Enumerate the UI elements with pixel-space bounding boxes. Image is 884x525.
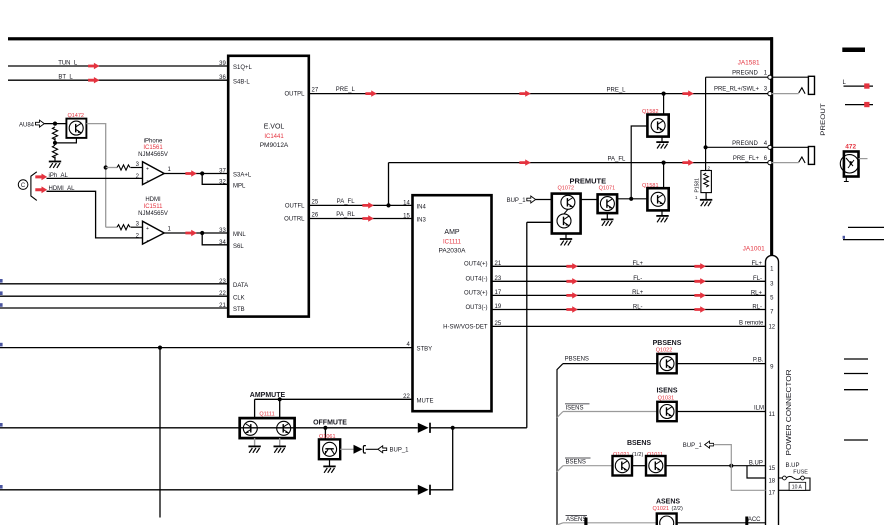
- svg-text:39: 39: [219, 61, 226, 67]
- svg-text:S6L: S6L: [233, 244, 244, 250]
- wire lower mute line: [0, 489, 418, 491]
- svg-text:RL+: RL+: [632, 290, 644, 296]
- wire PREGND pin4: [706, 141, 768, 148]
- svg-text:C: C: [21, 183, 26, 189]
- wire B.UP jumper pins 15/18: [747, 461, 766, 479]
- svg-text:P.B.: P.B.: [753, 357, 764, 363]
- svg-text:ISENS: ISENS: [656, 388, 677, 395]
- wire iPhone output to S3A+L/MPL: [164, 170, 228, 184]
- diode D-Q1061: [354, 445, 366, 454]
- transistor Q1021(2/2) ASENS: [653, 498, 683, 525]
- svg-text:FL+: FL+: [751, 261, 762, 267]
- pin 26 OUTRL: [284, 213, 319, 223]
- ground Q1581: [656, 210, 668, 222]
- pin 25 H-SW/VOS-DET: [443, 321, 502, 331]
- svg-text:15: 15: [403, 213, 410, 219]
- svg-text:33: 33: [219, 228, 226, 234]
- wire DATA: [0, 283, 228, 285]
- svg-text:TUN_L: TUN_L: [58, 61, 78, 67]
- transistor Q1011: [646, 452, 666, 476]
- svg-text:H-SW/VOS-DET: H-SW/VOS-DET: [443, 325, 488, 331]
- pin 23 OUT4(-): [466, 276, 502, 283]
- svg-text:FL-: FL-: [633, 276, 642, 282]
- svg-text:OUTFL: OUTFL: [285, 204, 305, 210]
- svg-text:PA_RL: PA_RL: [336, 212, 355, 218]
- wire Q1072 to Q1071: [581, 199, 598, 201]
- svg-text:ILM: ILM: [754, 406, 764, 412]
- pin 32 MPL: [219, 179, 246, 189]
- svg-text:OUTRL: OUTRL: [284, 217, 305, 223]
- node STBY branch: [158, 346, 162, 350]
- node OFFMUTE branch: [323, 426, 327, 430]
- label PRE_RL+/SWL+ pin3: [714, 87, 768, 93]
- svg-text:+: +: [146, 226, 149, 232]
- wire junction up to Q1582 base: [631, 126, 647, 199]
- svg-text:37: 37: [219, 169, 226, 175]
- pin numbers JA1001: [768, 267, 775, 497]
- pin 27 OUTPL: [284, 88, 318, 98]
- transistor Q1582: [642, 109, 669, 137]
- jack tip lower: [772, 157, 805, 163]
- svg-text:PRE_FL+: PRE_FL+: [733, 156, 760, 162]
- svg-text:Q1071: Q1071: [599, 186, 616, 192]
- svg-text:IN4: IN4: [417, 204, 427, 210]
- wire PRE_L to JA1581 pin 3: [309, 87, 768, 97]
- node base junction: [629, 197, 633, 201]
- resistor divider lower: [52, 145, 57, 158]
- wire B remote: [492, 321, 766, 327]
- thick bar fragment top right edge: [842, 48, 865, 53]
- svg-text:STBY: STBY: [417, 347, 433, 353]
- svg-text:PREGND: PREGND: [732, 71, 758, 77]
- svg-text:HDMI: HDMI: [145, 197, 161, 203]
- svg-text:S3A+L: S3A+L: [233, 173, 252, 179]
- wire divider to Q1472 emitter: [55, 138, 76, 143]
- IC U-E.VOL IC1441 block: [228, 56, 309, 317]
- wire PA_FL riser: [388, 163, 390, 206]
- thick fragment bottom right: [745, 517, 748, 525]
- pin 21 STB: [219, 303, 245, 313]
- fuse FUSE 10A: [779, 463, 811, 491]
- pin 34 S6L: [219, 240, 244, 250]
- svg-text:34: 34: [219, 240, 226, 246]
- thick top bus bar: [8, 37, 773, 40]
- svg-text:17: 17: [768, 491, 775, 497]
- svg-text:IC1511: IC1511: [144, 204, 164, 210]
- op-amp IC1511 HDMI: [106, 197, 172, 244]
- svg-text:PREGND: PREGND: [732, 141, 758, 147]
- svg-text:E.VOL: E.VOL: [264, 124, 285, 131]
- wire Q1472 collector to opamp bias rail (gray): [86, 124, 105, 228]
- resistor divider upper: [52, 127, 57, 140]
- connector JA1001 body POWER CONNECTOR: [766, 255, 793, 525]
- svg-text:B remote: B remote: [739, 321, 764, 327]
- svg-text:-: -: [147, 178, 149, 184]
- svg-text:PBSENS: PBSENS: [653, 340, 682, 347]
- wire drop to Q1061: [324, 428, 326, 440]
- svg-text:FL+: FL+: [632, 261, 643, 267]
- wire stubs right edge lower: [844, 359, 868, 440]
- svg-text:DATA: DATA: [233, 283, 248, 289]
- node PA_FL riser junction: [386, 203, 390, 207]
- svg-text:RL-: RL-: [752, 304, 762, 310]
- svg-text:PRE_RL+/SWL+: PRE_RL+/SWL+: [714, 87, 760, 93]
- wire RL+: [492, 290, 766, 298]
- copyright mark: [18, 180, 28, 190]
- pin 19 OUT3(-): [466, 304, 502, 311]
- pin 14 IN4: [403, 200, 426, 210]
- svg-text:RL+: RL+: [751, 290, 763, 296]
- svg-text:BUP_1: BUP_1: [683, 443, 703, 449]
- svg-text:22: 22: [219, 291, 226, 297]
- wire PREGND vertical link: [705, 77, 707, 170]
- svg-text:IC1111: IC1111: [443, 239, 462, 245]
- svg-text:B.UP: B.UP: [786, 463, 800, 469]
- connector BUP_1 (bsens): [683, 441, 766, 490]
- diode D-offmute: [418, 423, 430, 433]
- wire CLK: [0, 295, 228, 297]
- transistor Q1111 dual mute: [240, 412, 295, 439]
- pin 22 CLK: [219, 291, 245, 301]
- svg-text:JA1001: JA1001: [743, 246, 765, 253]
- svg-text:Q1111: Q1111: [259, 412, 274, 418]
- svg-text:OUT4(-): OUT4(-): [466, 277, 488, 283]
- pin 4 STBY: [406, 342, 432, 353]
- svg-text:14: 14: [403, 200, 410, 206]
- thick fragment bottom center: [584, 518, 587, 525]
- wire stubs right edge y236/240: [843, 227, 884, 239]
- pin 22 MUTE: [403, 394, 433, 405]
- wire stub 2 (right edge): [845, 102, 873, 107]
- svg-text:BSENS: BSENS: [566, 460, 586, 466]
- svg-text:ASENS: ASENS: [566, 517, 586, 523]
- pin 21 OUT4(+): [464, 261, 502, 268]
- pin 33 MNL: [219, 228, 246, 238]
- svg-text:RL-: RL-: [633, 304, 643, 310]
- wire HDMI output to MNL/S6L: [164, 230, 228, 245]
- ground Q1061: [323, 459, 335, 473]
- svg-text:MPL: MPL: [233, 184, 246, 190]
- wire Q1581 collector to PA_FL: [663, 163, 665, 189]
- svg-text:472: 472: [845, 144, 856, 151]
- wire FL-: [492, 276, 766, 284]
- svg-text:OFFMUTE: OFFMUTE: [313, 420, 347, 427]
- transistor Q1071: [598, 186, 618, 213]
- node junction AU84/R divider: [53, 122, 57, 126]
- svg-text:ASENS: ASENS: [656, 498, 680, 505]
- svg-text:BSENS: BSENS: [627, 440, 651, 447]
- wire Q1061 to BUP_1: [340, 448, 353, 450]
- svg-text:iPhone: iPhone: [144, 138, 163, 144]
- clipped left-edge labels: [0, 279, 3, 489]
- svg-text:IC1561: IC1561: [143, 145, 163, 151]
- wire AMPMUTE: [250, 392, 413, 418]
- wire HDMI_AL: [35, 186, 142, 238]
- svg-text:18: 18: [768, 478, 775, 484]
- svg-text:OUT3(-): OUT3(-): [466, 305, 488, 311]
- wire PREGND pin1: [706, 71, 768, 78]
- wire BT_L: [8, 74, 228, 83]
- wire ASENS: [557, 515, 766, 525]
- ground Q1111 left: [248, 438, 260, 453]
- transistor Q1021(1/2) BSENS: [613, 440, 652, 475]
- wire Q1072 base riser (crosses B remote): [526, 222, 528, 427]
- svg-text:23: 23: [219, 279, 226, 285]
- svg-text:PA2030A: PA2030A: [439, 248, 467, 255]
- svg-text:IN3: IN3: [417, 218, 427, 224]
- op-amp IC1561 iPhone: [106, 138, 172, 184]
- svg-text:32: 32: [219, 179, 226, 185]
- transistor Q1072 (dual): [552, 186, 581, 234]
- svg-text:12: 12: [768, 325, 775, 331]
- svg-text:27: 27: [312, 88, 319, 94]
- svg-text:PREMUTE: PREMUTE: [569, 176, 606, 185]
- pin 15 IN3: [403, 213, 426, 223]
- svg-text:BT_L: BT_L: [58, 74, 73, 80]
- jack tip upper: [772, 88, 805, 94]
- transistor Q1581: [642, 183, 669, 211]
- connector AU84 input: [19, 120, 44, 128]
- svg-text:S1Q+L: S1Q+L: [233, 65, 253, 71]
- wire STBY: [0, 347, 413, 349]
- wire Q1582 collector to PRE_L: [663, 94, 665, 115]
- node divider mid junction: [53, 141, 57, 145]
- ground Q1582: [656, 137, 668, 149]
- node PREGND4 junction: [704, 145, 708, 149]
- svg-text:AU84: AU84: [19, 122, 35, 128]
- svg-text:-: -: [147, 238, 149, 244]
- pin 23 DATA: [219, 279, 248, 289]
- svg-text:(1/2): (1/2): [632, 452, 643, 458]
- wire iPh_AL: [35, 173, 142, 180]
- wire lower diode riser: [430, 428, 453, 490]
- transistor Q1472: [66, 113, 86, 138]
- ground below divider: [49, 162, 61, 168]
- IC U-AMP IC1111 block: [413, 195, 492, 411]
- svg-text:26: 26: [312, 213, 319, 219]
- wire Q1071 to Q1581 base: [617, 198, 647, 200]
- wire BSENS: [557, 458, 747, 472]
- svg-text:15: 15: [768, 466, 775, 472]
- wire TUN_L: [8, 61, 228, 70]
- svg-text:FL-: FL-: [753, 276, 762, 282]
- node diode join: [451, 426, 455, 430]
- svg-text:Q1021: Q1021: [653, 506, 670, 512]
- ground P1581: [700, 193, 712, 207]
- wire PA_FL to JA1581 pin 6: [389, 156, 768, 165]
- wire base riser to Q1072 box: [527, 221, 552, 223]
- svg-text:IC1441: IC1441: [264, 134, 284, 140]
- ground Q1111 right: [274, 438, 286, 453]
- svg-text:MNL: MNL: [233, 232, 246, 238]
- svg-text:ACC: ACC: [748, 517, 761, 523]
- resistor P1581: [695, 165, 712, 200]
- svg-text:CLK: CLK: [233, 295, 245, 301]
- node BSENS/BUP junction: [729, 464, 733, 468]
- svg-text:PA_FL: PA_FL: [607, 156, 626, 162]
- connector BUP_1 (premute): [507, 196, 552, 204]
- svg-text:JA1581: JA1581: [738, 60, 760, 67]
- svg-text:BUP_1: BUP_1: [507, 198, 527, 204]
- wire STB: [0, 307, 228, 309]
- svg-text:+: +: [146, 167, 149, 173]
- node bias rail junction: [104, 165, 108, 169]
- svg-text:POWER CONNECTOR: POWER CONNECTOR: [786, 370, 793, 456]
- wire OFFMUTE line: [0, 427, 418, 429]
- svg-text:10 A: 10 A: [792, 485, 803, 491]
- svg-text:PM9012A: PM9012A: [260, 142, 289, 149]
- svg-text:21: 21: [219, 303, 226, 309]
- node PRE_L / Q1582 junction: [662, 92, 666, 96]
- wire RL-: [492, 304, 766, 312]
- diode D-lower: [418, 485, 430, 495]
- connector BUP_1 (offmute): [366, 446, 410, 454]
- pin 39 S1Q+L: [219, 61, 252, 71]
- pin 37 S3A+L: [219, 169, 252, 179]
- input brace: [31, 172, 37, 201]
- label PRE_FL+ pin6: [733, 156, 768, 162]
- wire PA_FL from OUTFL: [309, 199, 413, 209]
- svg-text:MUTE: MUTE: [417, 398, 434, 404]
- wire sense bus: [557, 364, 563, 525]
- pin 25 OUTFL: [285, 199, 319, 209]
- svg-text:PRE_L: PRE_L: [336, 87, 356, 93]
- svg-text:NJM4565V: NJM4565V: [138, 211, 168, 217]
- ground Q1072: [560, 234, 572, 246]
- wire FL+: [492, 261, 766, 269]
- svg-text:PREOUT: PREOUT: [820, 103, 827, 136]
- svg-text:FUSE: FUSE: [793, 470, 808, 476]
- svg-text:OUTPL: OUTPL: [284, 92, 305, 98]
- svg-text:BUP_1: BUP_1: [390, 448, 410, 454]
- wire offmute diode to riser: [430, 427, 527, 429]
- svg-text:OUT3(+): OUT3(+): [464, 291, 488, 297]
- svg-text:36: 36: [219, 75, 226, 81]
- svg-text:PRE_L: PRE_L: [606, 87, 626, 93]
- svg-text:PBSENS: PBSENS: [565, 356, 589, 362]
- svg-text:OUT4(+): OUT4(+): [464, 262, 488, 268]
- wire PBSENS: [563, 356, 766, 363]
- pin circles JA1581: [768, 75, 772, 165]
- transistor Q1022 PBSENS: [653, 340, 682, 373]
- wire ISENS: [557, 404, 766, 418]
- svg-text:ISENS: ISENS: [566, 405, 584, 411]
- transistor Q1061: [319, 434, 340, 459]
- node PA_FL / Q1581 junction: [662, 161, 666, 165]
- ground Q1071: [601, 213, 613, 226]
- svg-text:NJM4565V: NJM4565V: [138, 152, 168, 158]
- svg-text:AMP: AMP: [444, 229, 460, 236]
- pin 17 OUT3(+): [464, 290, 502, 297]
- transistor Q1031 ISENS: [656, 388, 677, 422]
- svg-text:PA_FL: PA_FL: [337, 199, 356, 205]
- svg-text:Q1072: Q1072: [558, 186, 575, 192]
- svg-text:STB: STB: [233, 307, 245, 313]
- wire STBY drop: [159, 348, 161, 518]
- pin 36 S4B-L: [219, 75, 250, 85]
- svg-text:2: 2: [708, 165, 711, 170]
- thick vertical line down to JA1001: [770, 37, 773, 256]
- svg-text:25: 25: [312, 199, 319, 205]
- wire AU84 to Q1472: [44, 123, 66, 125]
- svg-text:(2/2): (2/2): [672, 506, 683, 512]
- wire PA_RL: [309, 212, 413, 222]
- svg-text:1: 1: [695, 195, 698, 200]
- wire stub L (right edge): [843, 80, 874, 89]
- svg-text:11: 11: [769, 412, 776, 418]
- jack sleeve upper: [772, 76, 815, 94]
- transistor 472 (clipped): [840, 144, 867, 182]
- svg-text:P1581: P1581: [695, 178, 701, 193]
- jack sleeve lower: [772, 147, 815, 165]
- svg-text:S4B-L: S4B-L: [233, 79, 250, 85]
